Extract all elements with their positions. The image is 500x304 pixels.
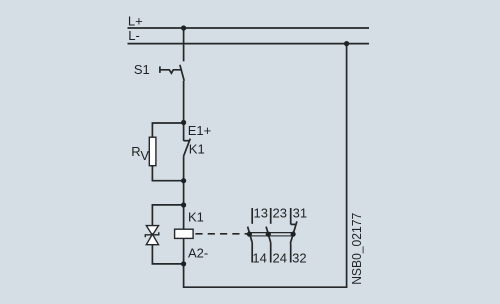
contact 13-14 top terminal: [251, 208, 253, 224]
wire contact to coil: [183, 156, 185, 229]
node A2- junction dot: [181, 261, 186, 266]
contact 31-32 fixed foot: [291, 223, 296, 225]
linkage dot contact 23-24: [266, 232, 271, 237]
contact 31-32 blade: [290, 221, 297, 243]
svg-text:13: 13: [254, 205, 268, 220]
node coil top junction dot: [181, 202, 186, 207]
wire L- bus: [128, 43, 370, 45]
contact 13-14 blade: [248, 227, 253, 243]
svg-text:24: 24: [273, 250, 287, 265]
node Rv bottom junction dot: [181, 178, 186, 183]
suppressor diode Z bar: [145, 232, 159, 237]
svg-text:V: V: [140, 148, 149, 163]
node E1+ junction dot: [181, 120, 186, 125]
mechanical linkage dashed line coil to contact block: [195, 233, 247, 235]
suppressor diode lower triangle: [146, 234, 158, 245]
wire bottom return and right riser to L-: [184, 44, 347, 288]
mechanical linkage double bar upper: [249, 232, 293, 234]
switch S1 actuator link with notch: [160, 70, 181, 73]
contact 23-24 blade: [266, 227, 271, 243]
suppressor diode upper triangle: [146, 226, 158, 236]
switch S1 blade: [180, 65, 184, 81]
contact 31-32 top terminal: [290, 208, 292, 224]
mechanical linkage double bar lower: [249, 235, 293, 237]
node L+ junction dot: [181, 25, 186, 30]
svg-text:S1: S1: [134, 62, 150, 77]
wire L+ bus: [128, 27, 370, 29]
contact 13-14 bottom terminal: [251, 243, 253, 263]
linkage dot contact 31-32: [291, 232, 296, 237]
contact K1 fixed foot: [184, 140, 189, 142]
svg-text:14: 14: [252, 250, 266, 265]
svg-text:E1+: E1+: [188, 123, 212, 138]
node L- junction dot: [344, 41, 349, 46]
wire S1 to E1+ contact: [183, 81, 185, 141]
svg-text:R: R: [131, 144, 140, 159]
wire coil to bottom return: [183, 238, 185, 264]
svg-text:A2-: A2-: [188, 246, 208, 261]
contact 23-24 top terminal: [270, 208, 272, 224]
wire Rv branch top: [152, 123, 183, 137]
svg-text:K1: K1: [189, 141, 205, 156]
svg-text:L+: L+: [128, 14, 143, 29]
wire main drop from L+ to S1: [183, 28, 185, 61]
switch S1 actuator T-bar: [159, 66, 161, 73]
linkage dot contact 13-14: [247, 232, 252, 237]
svg-text:NSB0_02177: NSB0_02177: [349, 213, 364, 285]
contact 31-32 bottom terminal: [290, 244, 292, 263]
wire Rv branch bottom: [152, 166, 183, 181]
relay coil K1 body: [175, 229, 194, 238]
svg-text:L-: L-: [128, 28, 140, 43]
wire suppressor branch bottom: [152, 245, 183, 264]
contact 23-24 bottom terminal: [270, 243, 272, 263]
contact K1 blade: [184, 139, 191, 157]
svg-text:31: 31: [293, 205, 307, 220]
svg-text:K1: K1: [188, 209, 204, 224]
wire suppressor branch top: [152, 205, 183, 226]
svg-text:23: 23: [273, 205, 287, 220]
resistor Rv body: [149, 137, 156, 166]
svg-text:32: 32: [292, 250, 306, 265]
